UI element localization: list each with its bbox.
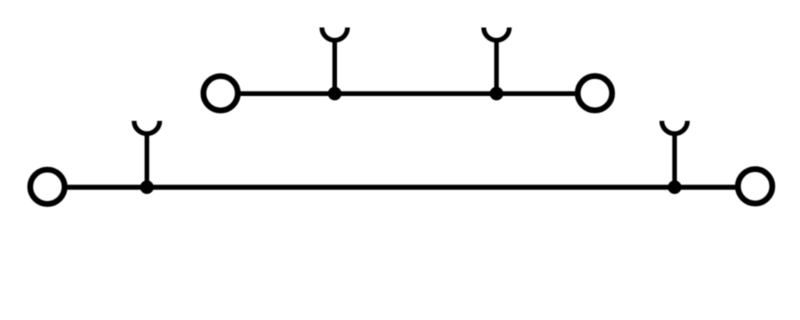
wire upper rail	[238, 91, 578, 96]
node junction dot lower-right tap	[668, 180, 682, 194]
terminal circle upper-right	[578, 76, 612, 110]
tap fork symbol lower-left	[134, 121, 160, 134]
wire stem lower-right tap	[672, 132, 677, 188]
wire stem lower-left tap	[145, 132, 150, 188]
tap fork symbol lower-right	[662, 121, 688, 134]
node junction dot upper-right tap	[490, 87, 504, 101]
terminal circle lower-left	[30, 170, 64, 204]
node junction dot lower-left tap	[140, 180, 154, 194]
terminal circle lower-right	[738, 169, 772, 203]
wire lower rail	[64, 185, 738, 190]
tap fork symbol upper-right	[484, 28, 510, 41]
node junction dot upper-left tap	[328, 87, 342, 101]
tap fork symbol upper-left	[322, 28, 348, 41]
wire stem upper-right tap	[494, 38, 499, 93]
terminal circle upper-left	[203, 76, 237, 110]
wire stem upper-left tap	[332, 38, 337, 93]
